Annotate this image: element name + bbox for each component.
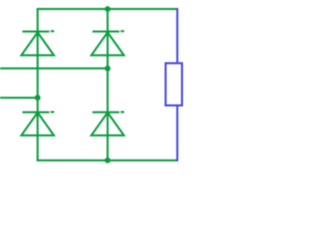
wire load bottom (blue) <box>176 105 178 161</box>
wire middle column <box>107 9 109 160</box>
node AC lower junction <box>35 95 41 101</box>
wire top rail <box>37 8 178 10</box>
diode D2 <box>91 31 124 55</box>
node top middle junction <box>105 6 111 12</box>
wire AC input upper <box>0 67 108 69</box>
diode D1 <box>21 31 54 55</box>
wire load top (blue) <box>176 8 178 63</box>
node AC upper junction <box>105 66 111 72</box>
wire bottom rail <box>37 159 178 161</box>
node bottom middle junction <box>105 157 111 163</box>
diode D3 <box>21 112 54 135</box>
resistor R load <box>166 63 182 105</box>
wire left column <box>37 8 39 160</box>
wire AC input lower <box>0 97 38 99</box>
diode D4 <box>91 112 124 135</box>
